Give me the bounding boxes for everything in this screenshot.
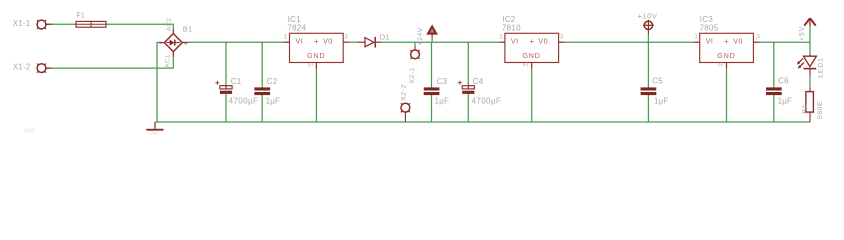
resistor R1 [806, 92, 814, 113]
svg-text:X2-1: X2-1 [409, 67, 416, 84]
svg-text:7824: 7824 [287, 23, 306, 32]
svg-text:GND: GND [522, 51, 540, 60]
wire stub IC1 pin3 [343, 41, 349, 43]
svg-text:C3: C3 [437, 77, 448, 86]
connector X2-1 [410, 50, 419, 59]
svg-text:AC1: AC1 [165, 54, 172, 68]
capacitor C2 wire bottom [261, 95, 263, 122]
wire stub IC3 gnd [726, 63, 728, 69]
capacitor C5 [641, 87, 657, 95]
svg-text:X1-2: X1-2 [13, 63, 31, 72]
fuse F1 [76, 21, 106, 27]
svg-text:2: 2 [718, 63, 725, 67]
svg-text:1µF: 1µF [778, 96, 793, 105]
wire stub B1 AC1 pin [172, 52, 174, 57]
wire stub IC3 pin3 [753, 41, 759, 43]
voltage regulator IC3 [700, 33, 754, 62]
wire +5V corner to LED [809, 42, 811, 54]
svg-text:+: + [529, 37, 534, 46]
svg-text:+10V: +10V [638, 12, 658, 21]
wire X1-1 to F1 [46, 23, 76, 25]
svg-text:GND: GND [307, 51, 325, 60]
wire stub IC2 gnd [531, 63, 533, 69]
svg-text:3: 3 [344, 34, 348, 41]
supply +5V [804, 18, 815, 26]
wire +24V to rail [431, 39, 433, 43]
svg-text:560E: 560E [817, 101, 824, 119]
connector X1-2 [37, 64, 52, 73]
wire stub R1 top [809, 87, 811, 92]
voltage regulator IC2 [505, 33, 559, 62]
svg-text:1: 1 [284, 34, 288, 41]
capacitor C4 [458, 81, 475, 94]
capacitor C2 [254, 87, 270, 95]
wire stub LED anode [809, 54, 811, 56]
capacitor C6 wire top [773, 42, 775, 87]
svg-text:X1-1: X1-1 [13, 19, 31, 28]
svg-text:4700µF: 4700µF [229, 96, 259, 105]
wire stub IC1 pin1 [285, 41, 290, 43]
capacitor C5 wire bottom [647, 95, 649, 122]
supply +10V [643, 20, 654, 35]
svg-text:B1: B1 [183, 25, 193, 34]
wire F1 to corner above B1 [106, 24, 173, 29]
svg-text:+24V: +24V [417, 27, 424, 45]
svg-text:VI: VI [706, 37, 714, 46]
svg-text:AC2: AC2 [166, 18, 173, 32]
wire IC1 to D1 [349, 41, 359, 43]
wire IC3 gnd down [726, 68, 728, 122]
voltage regulator IC1 [290, 33, 344, 62]
wire IC3 to +5V corner [759, 22, 810, 43]
wire B1 plus to IC1 [188, 41, 285, 43]
wire IC1 gnd down [315, 68, 317, 122]
svg-text:4700µF: 4700µF [472, 96, 502, 105]
label B1 minus [159, 42, 161, 44]
svg-text:X2-2: X2-2 [400, 84, 407, 101]
wire stub B1 plus pin [182, 41, 188, 43]
svg-text:C5: C5 [652, 77, 663, 86]
svg-text:VI: VI [296, 37, 304, 46]
bridge rectifier B1 [164, 34, 182, 52]
capacitor C6 wire bottom [773, 95, 775, 122]
wire stub IC1 gnd [315, 63, 317, 69]
capacitor C6 [766, 87, 782, 95]
wire +10V to rail [647, 35, 649, 42]
wire stub IC3 pin1 [694, 41, 700, 43]
ground rail [155, 121, 810, 123]
connector X2-2 [401, 103, 410, 122]
svg-text:7810: 7810 [502, 23, 521, 32]
capacitor C5 wire top [647, 42, 649, 87]
wire D1 to IC2 [382, 41, 501, 43]
wire stub R1 bottom [809, 112, 811, 122]
svg-text:+: + [724, 37, 729, 46]
capacitor C3 [424, 87, 440, 95]
wire LED to R1 [809, 76, 811, 87]
capacitor C4 wire top [467, 42, 469, 85]
wire stub D1 cathode [376, 41, 382, 43]
diode D1 [365, 37, 375, 48]
svg-text:3: 3 [560, 34, 564, 41]
svg-text:D1: D1 [380, 33, 390, 42]
capacitor C2 wire top [261, 42, 263, 87]
capacitor C1 wire bottom [225, 94, 227, 122]
svg-text:2: 2 [307, 63, 314, 67]
svg-text:1µF: 1µF [654, 96, 669, 105]
wire stub IC2 pin1 [500, 41, 505, 43]
svg-text:V0: V0 [733, 37, 743, 46]
svg-text:7805: 7805 [700, 23, 719, 32]
svg-text:GND: GND [717, 51, 735, 60]
wire stub B1 AC2 pin [172, 29, 174, 34]
capacitor C4 wire bottom [467, 94, 469, 122]
svg-text:1µF: 1µF [435, 96, 450, 105]
svg-text:+5V: +5V [799, 26, 806, 41]
svg-text:GND: GND [24, 129, 36, 135]
wire stub IC2 pin3 [559, 41, 565, 43]
svg-text:C1: C1 [231, 77, 242, 86]
capacitor C3 wire top [431, 42, 433, 87]
svg-text:+: + [184, 41, 188, 48]
LED LED1 [797, 56, 817, 68]
svg-text:C2: C2 [267, 77, 278, 86]
wire stub X2-1 [414, 42, 416, 46]
svg-text:3: 3 [756, 34, 760, 41]
svg-text:F1: F1 [76, 12, 85, 19]
svg-text:GND: GND [148, 131, 160, 137]
connector X1-1 [37, 20, 52, 29]
wire IC2 gnd down [531, 68, 533, 122]
wire X1-2 to B1 AC1 [46, 57, 173, 69]
svg-text:VI: VI [511, 37, 519, 46]
ground symbol bar [146, 129, 163, 131]
svg-text:R1: R1 [801, 104, 808, 114]
svg-text:C4: C4 [473, 77, 484, 86]
svg-text:1: 1 [499, 34, 503, 41]
capacitor C1 [215, 81, 232, 94]
wire B1 minus to ground [157, 42, 161, 122]
svg-text:C6: C6 [778, 77, 789, 86]
ground symbol stub [154, 122, 156, 129]
wire stub D1 anode [359, 41, 366, 43]
svg-text:LED1: LED1 [818, 57, 825, 78]
wire stub B1 minus pin [160, 42, 165, 44]
wire IC2 to IC3 [565, 41, 695, 43]
svg-text:+: + [314, 37, 319, 46]
wire stub LED cathode [809, 69, 811, 76]
svg-text:1µF: 1µF [266, 96, 281, 105]
capacitor C3 wire bottom [431, 95, 433, 122]
svg-text:1: 1 [694, 34, 698, 41]
svg-text:V0: V0 [538, 37, 548, 46]
svg-text:V0: V0 [323, 37, 333, 46]
supply +24V [427, 25, 437, 38]
svg-text:2: 2 [523, 63, 530, 67]
capacitor C1 wire top [225, 42, 227, 85]
